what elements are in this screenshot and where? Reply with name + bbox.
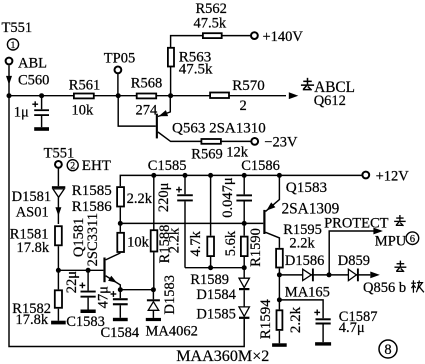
svg-text:C1584: C1584: [101, 325, 140, 341]
svg-text:2.2k: 2.2k: [289, 235, 315, 251]
svg-text:1: 1: [11, 40, 16, 51]
svg-text:2.2k: 2.2k: [288, 306, 304, 333]
svg-text:274: 274: [136, 102, 159, 118]
svg-text:D1586: D1586: [285, 253, 324, 269]
svg-text:Q856 b: Q856 b: [363, 280, 406, 296]
svg-text:47.5k: 47.5k: [179, 62, 213, 78]
svg-text:−23V: −23V: [264, 134, 298, 150]
svg-text:D1581: D1581: [12, 189, 51, 205]
svg-text:5.6k: 5.6k: [223, 230, 239, 256]
svg-text:D1583: D1583: [162, 275, 178, 314]
svg-text:MA165: MA165: [285, 284, 330, 300]
svg-text:1μ: 1μ: [14, 104, 29, 120]
svg-text:2.2k: 2.2k: [127, 191, 153, 207]
svg-text:R568: R568: [131, 76, 162, 92]
svg-text:T551: T551: [44, 146, 75, 162]
svg-text:+12V: +12V: [376, 168, 410, 184]
svg-text:MAA360M×2: MAA360M×2: [176, 348, 269, 364]
svg-text:Q1583: Q1583: [286, 179, 327, 196]
svg-text:R1594: R1594: [258, 299, 274, 340]
svg-text:MA4062: MA4062: [146, 324, 198, 340]
svg-text:R1589: R1589: [190, 272, 229, 288]
svg-text:Q612: Q612: [314, 93, 346, 109]
svg-text:R561: R561: [69, 77, 100, 93]
svg-text:Q563 2SA1310: Q563 2SA1310: [172, 120, 266, 136]
svg-text:6: 6: [410, 234, 415, 245]
svg-text:4.7k: 4.7k: [188, 230, 204, 256]
svg-text:8: 8: [384, 342, 391, 358]
svg-text:D1585: D1585: [196, 307, 235, 323]
svg-text:ABL: ABL: [18, 55, 47, 71]
svg-text:17.8k: 17.8k: [17, 240, 50, 256]
svg-text:220μ: 220μ: [156, 182, 172, 212]
svg-text:TP05: TP05: [104, 50, 135, 66]
svg-text:T551: T551: [2, 20, 33, 36]
svg-text:C1586: C1586: [241, 158, 280, 174]
svg-text:0.047μ: 0.047μ: [220, 177, 236, 218]
svg-text:PROTECT: PROTECT: [324, 215, 389, 231]
svg-text:MPU: MPU: [375, 233, 407, 249]
svg-text:17.8k: 17.8k: [16, 312, 49, 328]
svg-text:2: 2: [70, 161, 75, 172]
svg-text:C1583: C1583: [66, 314, 105, 330]
svg-text:2SC3311: 2SC3311: [85, 213, 101, 266]
svg-text:C1585: C1585: [148, 158, 187, 174]
svg-text:2.2k: 2.2k: [166, 227, 182, 253]
svg-text:R1585: R1585: [72, 183, 112, 199]
svg-text:2: 2: [240, 98, 247, 114]
svg-text:AS01: AS01: [16, 205, 49, 221]
svg-text:R569: R569: [191, 147, 222, 163]
svg-text:4.7μ: 4.7μ: [339, 320, 365, 336]
svg-text:47.5k: 47.5k: [194, 15, 227, 31]
svg-text:R1590: R1590: [248, 228, 264, 267]
svg-text:10k: 10k: [127, 235, 150, 251]
svg-text:D859: D859: [338, 253, 370, 269]
svg-text:+140V: +140V: [263, 29, 304, 45]
svg-text:C560: C560: [18, 73, 49, 89]
svg-text:10k: 10k: [72, 103, 95, 119]
svg-text:D1584: D1584: [196, 287, 236, 303]
svg-text:R570: R570: [232, 78, 265, 94]
svg-text:R1586: R1586: [72, 199, 113, 215]
svg-text:47μ: 47μ: [96, 286, 112, 309]
svg-text:22μ: 22μ: [64, 271, 80, 294]
svg-text:EHT: EHT: [82, 158, 111, 174]
